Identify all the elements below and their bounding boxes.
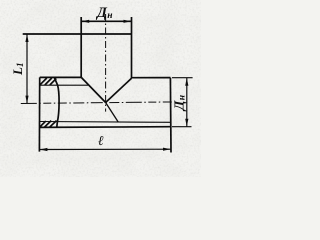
main pipe bottom line (40, 126, 171, 129)
left end weld bevel line (54, 78, 59, 128)
Dn right bottom extension line (172, 126, 192, 128)
scan grain (0, 0, 201, 177)
top dimension line Dn (81, 20, 131, 22)
paper background (0, 0, 201, 177)
main pipe top line, left of branch (40, 76, 81, 78)
hatching of left-end top wall section (40, 78, 56, 85)
arrowhead Dn-right top (185, 78, 188, 86)
scan blotches (0, 0, 201, 177)
svg-text:ℓ: ℓ (98, 133, 104, 148)
L dimension line (bottom) (39, 148, 171, 150)
weld seam diagonal below junction (106, 103, 119, 123)
branch vertical centerline (dash-dot) (105, 14, 107, 112)
arrowhead L1 bottom (25, 96, 28, 104)
main pipe top line, right of branch (132, 77, 171, 79)
branch-to-pipe V seam right diagonal (106, 78, 132, 102)
branch pipe left edge (extension up to dim line) (80, 17, 82, 78)
inner wall line top (left end section) (40, 84, 88, 86)
branch-to-pipe V seam left diagonal (81, 78, 105, 103)
branch top end line + left extension to L1 dimension (23, 33, 132, 35)
hatching of left-end bottom wall section (40, 121, 57, 127)
arrowhead L1 top (25, 34, 28, 42)
arrowhead Dn-right bottom (185, 119, 188, 127)
main pipe left end edge + extension down to L dimension (38, 77, 40, 151)
main pipe right end edge + extension down to L dimension (169, 78, 172, 153)
L1 dimension line (left) (26, 34, 28, 103)
branch pipe right edge (extension up to dim line) (131, 17, 133, 78)
arrowhead L bottom-dim left (40, 148, 48, 151)
Dn right top extension line (172, 77, 193, 79)
inner wall line bottom (full length) (40, 121, 170, 124)
arrowhead top-dim left (81, 20, 89, 23)
Dn right dimension line (186, 78, 188, 127)
arrowhead top-dim right (124, 20, 132, 23)
main pipe horizontal centerline (dash-dot) (21, 102, 176, 104)
arrowhead L bottom-dim right (163, 148, 171, 151)
